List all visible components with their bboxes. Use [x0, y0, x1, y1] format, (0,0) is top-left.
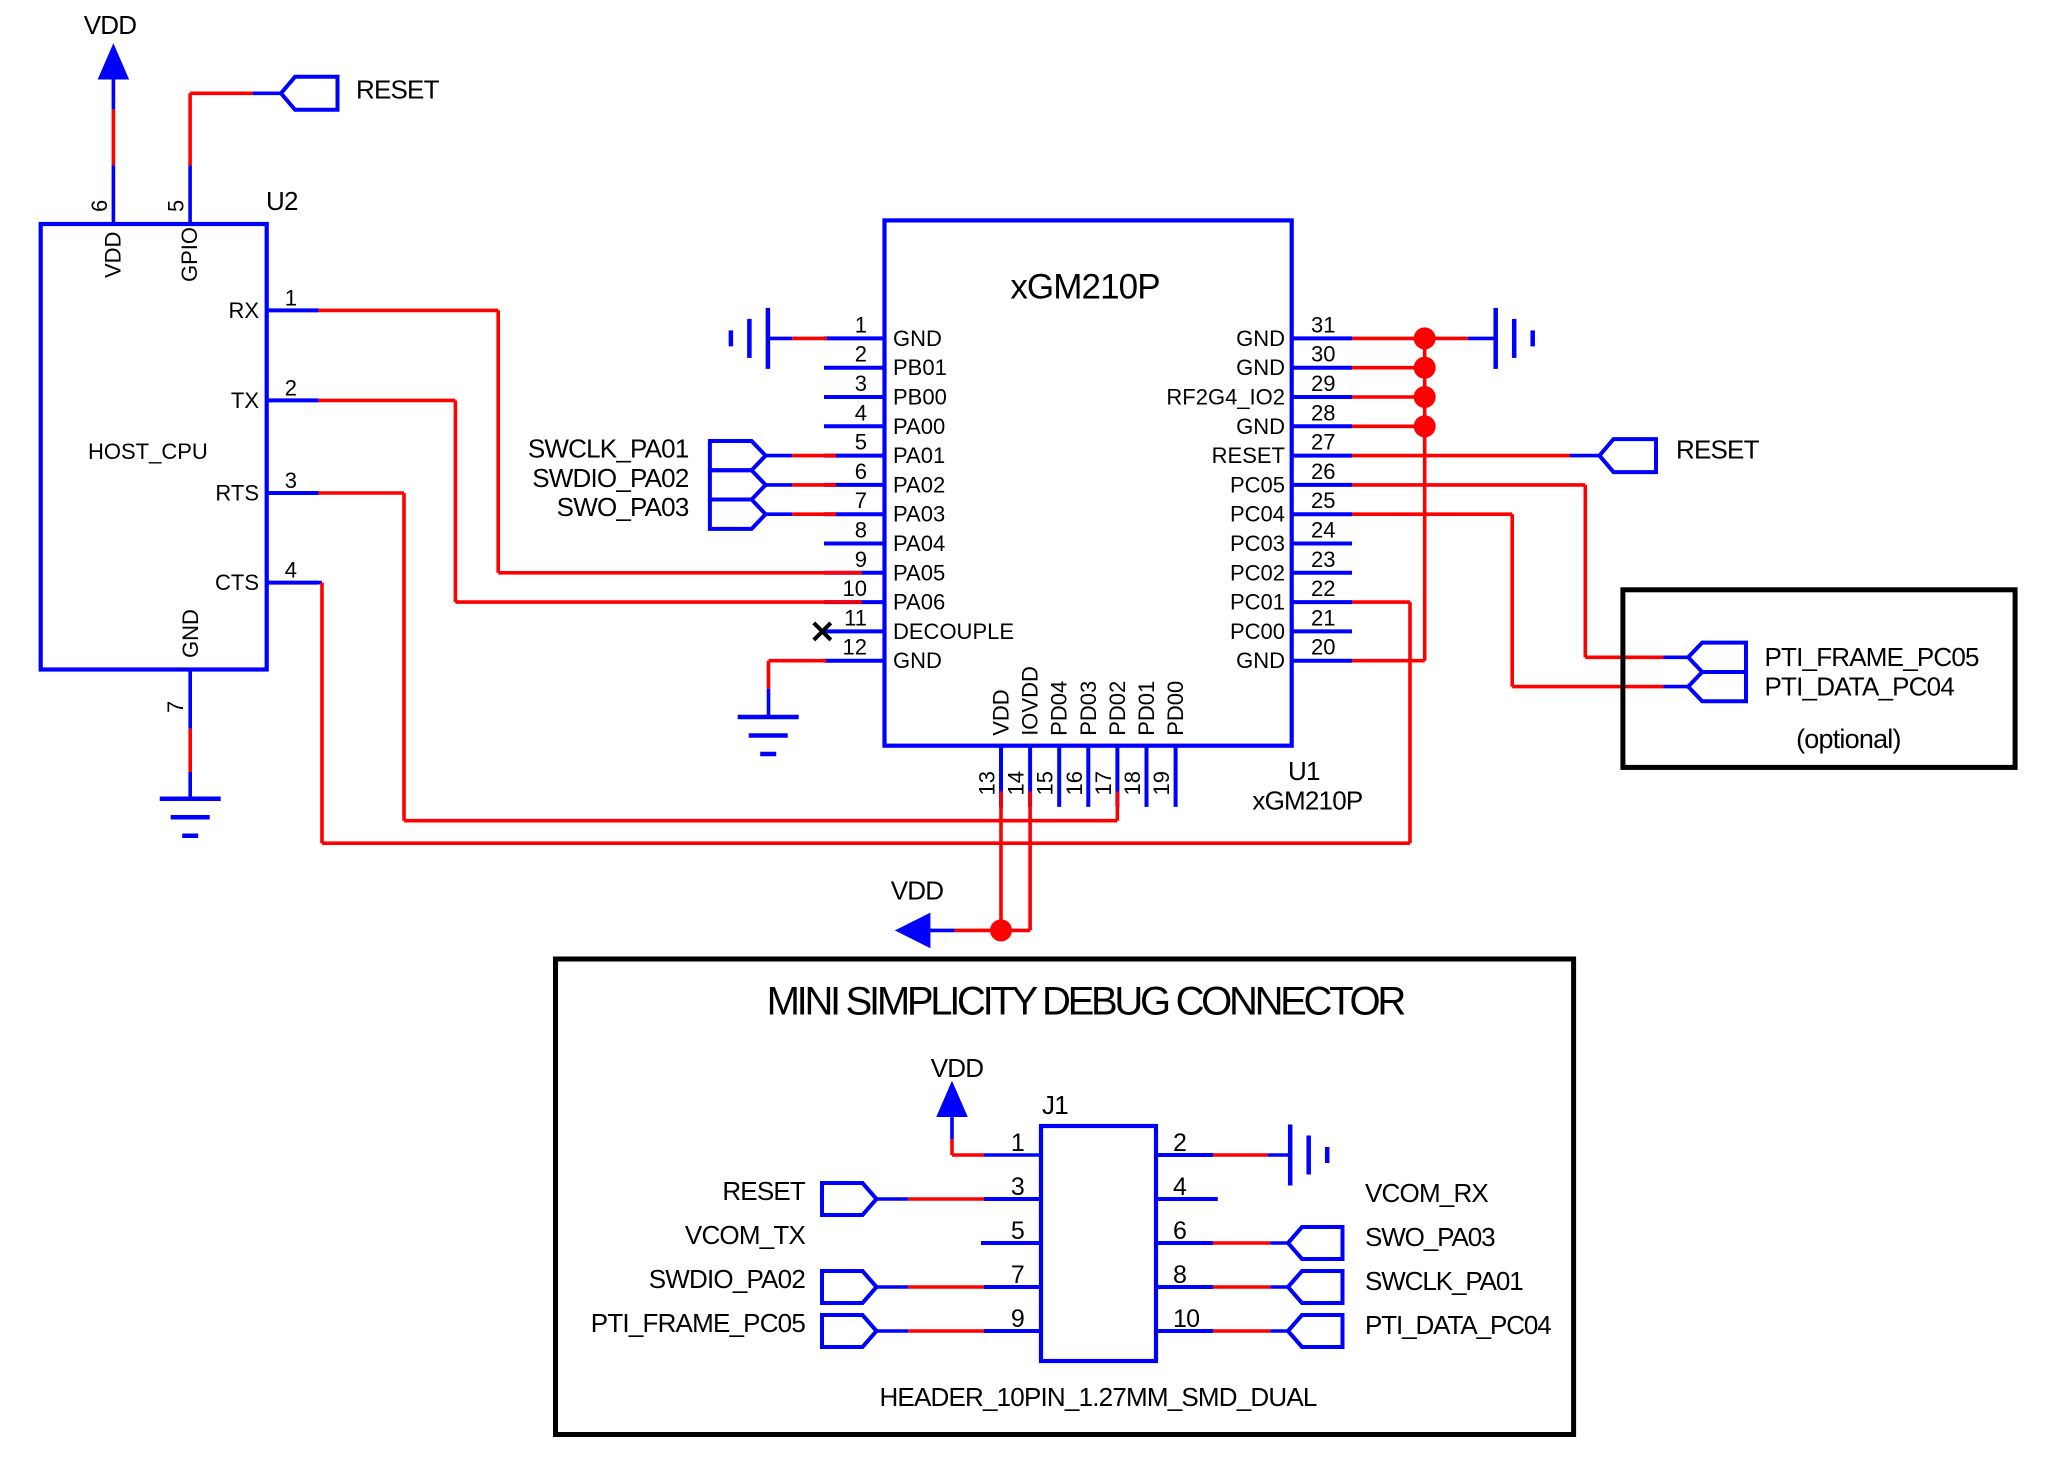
wire U2 pin6 to VDD	[112, 78, 116, 224]
wire U2 pin5 GPIO to RESET	[190, 93, 281, 224]
svg-text:9: 9	[855, 547, 867, 572]
label VCOM_TX (J1 pin5)	[685, 1220, 806, 1250]
wires SWD trio to U1 pins 5-7	[766, 456, 836, 515]
IC U1 xGM210P body	[885, 220, 1292, 745]
power flag VDD (U2 pin 6)	[84, 10, 137, 79]
svg-text:1: 1	[285, 285, 297, 310]
svg-text:SWCLK_PA01: SWCLK_PA01	[528, 434, 689, 464]
svg-text:27: 27	[1311, 430, 1335, 455]
svg-text:TX: TX	[231, 388, 259, 413]
svg-text:PB00: PB00	[893, 385, 947, 410]
svg-text:PD00: PD00	[1163, 681, 1188, 736]
svg-text:4: 4	[1173, 1173, 1187, 1201]
connector RESET (J1 pin 3)	[722, 1176, 876, 1215]
svg-text:25: 25	[1311, 488, 1335, 513]
svg-text:xGM210P: xGM210P	[1010, 267, 1159, 306]
wire U1 pin20 GND	[1352, 659, 1425, 663]
svg-text:PTI_DATA_PC04: PTI_DATA_PC04	[1365, 1310, 1551, 1340]
svg-text:16: 16	[1062, 771, 1087, 795]
svg-text:2: 2	[285, 375, 297, 400]
svg-text:PC04: PC04	[1230, 502, 1285, 527]
junction (pin29)	[1414, 386, 1436, 408]
svg-text:31: 31	[1311, 312, 1335, 337]
svg-text:PC01: PC01	[1230, 590, 1285, 615]
connector SWDIO_PA02 (J1 pin 7)	[649, 1264, 877, 1303]
box MINI SIMPLICITY DEBUG CONNECTOR	[556, 959, 1574, 1435]
svg-text:1: 1	[1011, 1129, 1024, 1157]
wire PTI_FRAME_PC05 to J1 pin 9	[877, 1329, 985, 1333]
svg-text:7: 7	[855, 488, 867, 513]
svg-text:PTI_DATA_PC04: PTI_DATA_PC04	[1765, 671, 1955, 701]
wire SWDIO_PA02 to J1 pin 7	[877, 1285, 985, 1289]
wire U1 pin12 GND to ground	[769, 661, 827, 717]
svg-text:8: 8	[855, 518, 867, 543]
ground (left of U1 pin1)	[731, 308, 768, 369]
svg-text:PC02: PC02	[1230, 560, 1285, 585]
wire GND net vertical	[1423, 338, 1427, 660]
label (optional)	[1796, 724, 1901, 754]
svg-text:RESET: RESET	[1212, 443, 1285, 468]
J1 pin3 stub	[984, 1197, 1041, 1201]
wire J1 pin 10 to PTI_DATA_PC04	[1156, 1329, 1288, 1333]
svg-text:SWCLK_PA01: SWCLK_PA01	[1365, 1266, 1523, 1296]
svg-text:VDD: VDD	[891, 876, 944, 906]
wire RTS to PD02	[319, 493, 1118, 821]
J1 pin9 stub	[984, 1329, 1041, 1333]
svg-text:GND: GND	[1236, 355, 1285, 380]
svg-text:8: 8	[1173, 1261, 1186, 1289]
wire U1 pin31 GND to ground	[1352, 337, 1496, 341]
svg-text:PD01: PD01	[1134, 681, 1159, 736]
svg-text:SWDIO_PA02: SWDIO_PA02	[649, 1264, 806, 1294]
junction (pin28)	[1414, 415, 1436, 437]
labels SWD trio	[528, 434, 689, 523]
U1 left pins 1-12 stubs/names	[824, 312, 1014, 673]
svg-text:10: 10	[1173, 1305, 1199, 1333]
svg-text:9: 9	[1011, 1305, 1024, 1333]
wire CTS to PC01	[319, 583, 1411, 844]
svg-text:PB01: PB01	[893, 355, 947, 380]
svg-text:21: 21	[1311, 605, 1335, 630]
svg-text:GND: GND	[1236, 648, 1285, 673]
svg-text:10: 10	[843, 576, 867, 601]
svg-text:29: 29	[1311, 371, 1335, 396]
svg-text:HEADER_10PIN_1.27MM_SMD_DUAL: HEADER_10PIN_1.27MM_SMD_DUAL	[879, 1382, 1316, 1412]
svg-text:VCOM_RX: VCOM_RX	[1365, 1178, 1488, 1208]
svg-text:PA01: PA01	[893, 443, 945, 468]
svg-text:GND: GND	[1236, 326, 1285, 351]
wire U1 pin26 PC05 to PTI_FRAME	[1352, 485, 1688, 657]
svg-text:RESET: RESET	[722, 1176, 806, 1206]
svg-text:26: 26	[1311, 459, 1335, 484]
connector PTI_FRAME_PC05	[1688, 642, 1979, 672]
svg-text:14: 14	[1004, 771, 1029, 795]
IC U2 HOST_CPU	[41, 186, 319, 713]
svg-text:GND: GND	[893, 648, 942, 673]
svg-text:GPIO: GPIO	[177, 227, 202, 282]
svg-text:VDD: VDD	[101, 232, 126, 278]
svg-text:6: 6	[1173, 1217, 1186, 1245]
svg-text:20: 20	[1311, 635, 1335, 660]
power flag VDD (J1 pin1)	[931, 1053, 984, 1117]
svg-text:7: 7	[1011, 1261, 1024, 1289]
label MINI SIMPLICITY DEBUG CONNECTOR	[767, 980, 1406, 1024]
svg-text:SWDIO_PA02: SWDIO_PA02	[532, 463, 689, 493]
ground (right of J1 pin2)	[1290, 1125, 1327, 1186]
svg-text:1: 1	[855, 312, 867, 337]
svg-text:(optional): (optional)	[1796, 724, 1901, 754]
wire RESET to J1 pin 3	[877, 1197, 985, 1201]
svg-text:GND: GND	[893, 326, 942, 351]
junction (pin30)	[1414, 357, 1436, 379]
wire U1 pin29 RF2G4_IO2	[1352, 395, 1425, 399]
svg-text:PA06: PA06	[893, 590, 945, 615]
svg-text:7: 7	[163, 701, 188, 713]
J1 pin4 stub	[1156, 1197, 1218, 1201]
svg-text:18: 18	[1120, 771, 1145, 795]
svg-text:VDD: VDD	[931, 1053, 984, 1083]
svg-text:PA03: PA03	[893, 502, 945, 527]
svg-text:3: 3	[1011, 1173, 1024, 1201]
svg-text:VDD: VDD	[989, 689, 1014, 735]
connector PTI_DATA_PC04	[1688, 671, 1954, 701]
wire J1 pin 6 to SWO_PA03	[1156, 1241, 1288, 1245]
svg-text:J1: J1	[1042, 1090, 1068, 1120]
connector PTI_DATA_PC04 (J1 pin 10)	[1288, 1310, 1551, 1347]
svg-text:PD03: PD03	[1076, 681, 1101, 736]
svg-text:PD02: PD02	[1105, 681, 1130, 736]
svg-text:PA05: PA05	[893, 560, 945, 585]
svg-text:11: 11	[844, 605, 867, 630]
wire U1 pin27 RESET	[1352, 454, 1600, 458]
wire VDD to J1 pin1	[952, 1115, 1041, 1155]
wire J1 pin 8 to SWCLK_PA01	[1156, 1285, 1288, 1289]
svg-text:PC03: PC03	[1230, 531, 1285, 556]
svg-text:15: 15	[1033, 771, 1058, 795]
svg-text:4: 4	[285, 558, 297, 583]
svg-text:PA04: PA04	[893, 531, 945, 556]
label U1 refdes	[1252, 756, 1362, 816]
svg-text:PC05: PC05	[1230, 472, 1285, 497]
wire U1 pin25 PC04 to PTI_DATA	[1352, 514, 1688, 686]
svg-text:2: 2	[855, 342, 867, 367]
connector RESET (top)	[281, 75, 440, 110]
wire U1 pin13 VDD	[999, 791, 1003, 930]
label HEADER_10PIN_1.27MM_SMD_DUAL	[879, 1382, 1316, 1412]
svg-text:3: 3	[285, 468, 297, 493]
svg-text:23: 23	[1311, 547, 1335, 572]
svg-text:24: 24	[1311, 518, 1335, 543]
svg-text:DECOUPLE: DECOUPLE	[893, 619, 1014, 644]
U1 bottom pins 13-19 stubs/names	[975, 666, 1189, 807]
svg-text:RESET: RESET	[1676, 435, 1760, 465]
power flag VDD (U1 bottom)	[891, 876, 944, 948]
wire U1 pin14 IOVDD	[929, 791, 1030, 930]
connectors SWCLK_PA01/SWDIO_PA02/SWO_PA03	[710, 441, 766, 529]
svg-text:4: 4	[855, 400, 867, 425]
connector RESET (right)	[1600, 435, 1760, 473]
svg-text:RTS: RTS	[215, 481, 259, 506]
svg-text:RF2G4_IO2: RF2G4_IO2	[1166, 385, 1285, 410]
wire U1 pin30 GND	[1352, 366, 1425, 370]
svg-text:GND: GND	[178, 609, 203, 658]
ground (right of U1 pin31)	[1496, 308, 1533, 369]
svg-text:30: 30	[1311, 342, 1335, 367]
svg-text:5: 5	[164, 200, 189, 212]
IC J1 header body	[1041, 1090, 1156, 1361]
svg-text:2: 2	[1173, 1129, 1186, 1157]
wire U1 pin28 GND	[1352, 424, 1425, 428]
svg-text:SWO_PA03: SWO_PA03	[1365, 1222, 1495, 1252]
wire TX to PA06	[319, 400, 862, 602]
svg-text:PTI_FRAME_PC05: PTI_FRAME_PC05	[1765, 642, 1980, 672]
wire RX to PA05	[319, 310, 862, 572]
connector PTI_FRAME_PC05 (J1 pin 9)	[591, 1308, 877, 1347]
wire J1 pin2 to ground	[1156, 1153, 1290, 1157]
svg-text:17: 17	[1091, 771, 1116, 795]
connector SWCLK_PA01 (J1 pin 8)	[1288, 1266, 1523, 1303]
junction (VDD)	[990, 919, 1012, 941]
wire U2 pin7 to ground	[188, 670, 192, 799]
svg-text:VCOM_TX: VCOM_TX	[685, 1220, 806, 1250]
svg-text:3: 3	[855, 371, 867, 396]
ground (below U1 pin12)	[738, 717, 799, 754]
svg-text:PTI_FRAME_PC05: PTI_FRAME_PC05	[591, 1308, 806, 1338]
svg-text:6: 6	[855, 459, 867, 484]
svg-text:IOVDD: IOVDD	[1018, 666, 1043, 736]
svg-text:CTS: CTS	[215, 570, 259, 595]
svg-text:6: 6	[87, 200, 112, 212]
wire U1 pin1 GND to ground	[768, 337, 827, 341]
no-connect X (U1 pin 11 DECOUPLE)	[814, 623, 831, 640]
svg-text:GND: GND	[1236, 414, 1285, 439]
svg-text:PA02: PA02	[893, 472, 945, 497]
svg-text:VDD: VDD	[84, 10, 137, 40]
svg-text:28: 28	[1311, 400, 1335, 425]
svg-text:HOST_CPU: HOST_CPU	[88, 439, 208, 464]
svg-text:19: 19	[1149, 771, 1174, 795]
J1 pin numbers	[1011, 1129, 1199, 1333]
svg-text:PA00: PA00	[893, 414, 945, 439]
svg-text:xGM210P: xGM210P	[1252, 786, 1362, 816]
svg-text:RX: RX	[228, 298, 259, 323]
svg-text:12: 12	[843, 635, 867, 660]
svg-text:U1: U1	[1288, 756, 1320, 786]
svg-text:RESET: RESET	[356, 75, 440, 105]
svg-text:SWO_PA03: SWO_PA03	[557, 492, 689, 522]
junction (pin31)	[1414, 327, 1436, 349]
box (optional PTI)	[1623, 590, 2015, 768]
svg-text:5: 5	[855, 430, 867, 455]
ground (below U2)	[160, 799, 221, 836]
svg-text:PC00: PC00	[1230, 619, 1285, 644]
svg-text:13: 13	[975, 771, 1000, 795]
svg-text:5: 5	[1011, 1217, 1024, 1245]
U1 right pins 20-31 stubs/names	[1166, 312, 1352, 673]
svg-text:U2: U2	[266, 186, 298, 216]
svg-text:22: 22	[1311, 576, 1335, 601]
J1 pin7 stub	[984, 1285, 1041, 1289]
J1 pin5 stub	[981, 1241, 1041, 1245]
label VCOM_RX (J1 pin4)	[1365, 1178, 1488, 1208]
svg-text:MINI SIMPLICITY DEBUG CONNECTO: MINI SIMPLICITY DEBUG CONNECTOR	[767, 980, 1406, 1024]
svg-text:PD04: PD04	[1047, 681, 1072, 736]
connector SWO_PA03 (J1 pin 6)	[1288, 1222, 1495, 1259]
